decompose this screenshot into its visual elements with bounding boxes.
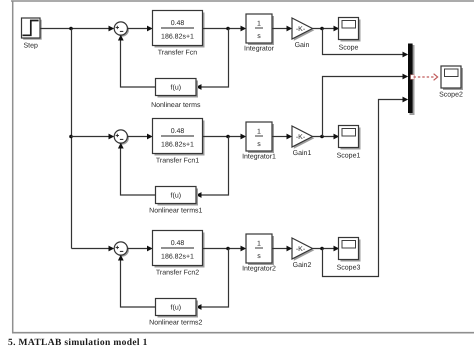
svg-text:Scope1: Scope1 — [337, 153, 361, 160]
svg-text:-K-: -K- — [296, 246, 306, 253]
junction dot node B — [226, 27, 230, 31]
arrowhead into Scope1 — [334, 134, 340, 140]
arrowhead into Scope3 — [334, 246, 340, 252]
svg-text:-K-: -K- — [296, 134, 306, 141]
integrator block Integrator2 — [242, 234, 276, 273]
arrowhead into Sum bottom — [118, 35, 124, 41]
svg-text:186.82s+1: 186.82s+1 — [161, 142, 194, 149]
arrowhead into f(u)2 right side — [196, 304, 202, 310]
wire Gain branch to Mux input 1 — [323, 29, 405, 55]
wire branch corner to Sum2 — [72, 248, 111, 250]
svg-text:s: s — [257, 253, 261, 260]
wire Integrator to Gain — [272, 28, 288, 30]
wire Gain1 branch up to Mux input 2 — [323, 77, 405, 137]
step source block Step — [22, 18, 42, 50]
arrowhead into f(u)1 right side — [196, 192, 202, 198]
svg-text:Transfer Fcn: Transfer Fcn — [158, 49, 198, 57]
junction dot node H — [320, 247, 324, 251]
feedback wire f(u)2 to Sum2 bottom — [121, 259, 156, 307]
integrator block Integrator1 — [242, 122, 276, 161]
junction dot node C — [320, 27, 324, 31]
gain block Gain2 — [292, 238, 314, 269]
svg-text:Scope3: Scope3 — [337, 265, 361, 272]
transfer function block Transfer Fcn2 — [153, 231, 205, 277]
junction dot node A — [69, 27, 73, 31]
wire branch vertical from node A down to row 3 — [71, 29, 73, 249]
svg-text:Gain: Gain — [295, 41, 310, 49]
wire Integrator1 to Gain1 — [272, 136, 288, 138]
feedback wire row2: node E down to f(u)1 — [200, 137, 229, 196]
svg-text:Integrator1: Integrator1 — [242, 154, 276, 161]
nonlinear function block Nonlinear terms1 — [149, 187, 202, 215]
arrowhead into Sum2 bottom — [118, 255, 124, 261]
mux block Mux — [408, 44, 415, 116]
sum block Sum1 — [114, 130, 129, 145]
wire Transfer Fcn1 to Integrator1 — [203, 136, 243, 138]
transfer function block Transfer Fcn1 — [153, 119, 205, 165]
red open arrowhead toward Scope2 — [434, 74, 438, 81]
svg-text:f(u): f(u) — [171, 304, 182, 312]
gain block Gain1 — [292, 126, 314, 157]
feedback wire row1: node B down to f(u) — [200, 29, 229, 88]
wire Sum1 to Transfer Fcn1 — [127, 136, 148, 138]
transfer function block Transfer Fcn — [153, 11, 205, 57]
scope block Scope1 — [337, 126, 361, 160]
arrowhead into Gain1 — [287, 134, 293, 140]
svg-text:f(u): f(u) — [171, 192, 182, 200]
arrowhead into Transfer Fcn2 — [147, 246, 153, 252]
wire Gain2 branch down right up to Mux input 3 — [323, 100, 405, 277]
arrowhead into Transfer Fcn1 — [147, 134, 153, 140]
svg-text:Nonlinear terms1: Nonlinear terms1 — [149, 207, 202, 215]
sum block Sum — [114, 22, 129, 37]
svg-text:Step: Step — [23, 43, 38, 50]
wire node D to Sum1 — [71, 136, 110, 138]
arrowhead into Scope — [334, 26, 340, 32]
svg-text:Scope: Scope — [339, 45, 359, 52]
svg-text:186.82s+1: 186.82s+1 — [161, 34, 194, 41]
nonlinear function block Nonlinear terms2 — [149, 299, 202, 327]
svg-text:1: 1 — [257, 241, 261, 248]
svg-text:0.48: 0.48 — [171, 128, 185, 135]
wire Transfer Fcn2 to Integrator2 — [203, 248, 243, 250]
svg-text:Gain2: Gain2 — [293, 261, 312, 269]
arrowhead into Mux input 1 — [403, 52, 409, 58]
arrowhead into f(u) right side — [196, 84, 202, 90]
svg-text:Nonlinear terms: Nonlinear terms — [151, 101, 201, 109]
svg-text:Integrator2: Integrator2 — [242, 266, 276, 273]
svg-text:s: s — [257, 141, 261, 148]
junction dot node D — [69, 135, 73, 139]
feedback wire row3: node G down to f(u)2 — [200, 249, 229, 308]
sum block Sum2 — [114, 242, 129, 257]
svg-text:1: 1 — [257, 21, 261, 28]
wire Gain to Scope — [313, 28, 336, 30]
figure frame top border — [11, 0, 474, 2]
svg-text:Transfer Fcn2: Transfer Fcn2 — [156, 269, 199, 277]
scope block Scope — [339, 18, 361, 52]
wire Integrator2 to Gain2 — [272, 248, 288, 250]
scope block Scope2 — [439, 66, 463, 99]
svg-text:Integrator: Integrator — [244, 46, 275, 53]
mux unconnected output port — [411, 75, 415, 79]
nonlinear function block Nonlinear terms — [151, 79, 201, 110]
arrowhead into Integrator2 — [241, 246, 247, 252]
svg-text:s: s — [257, 33, 261, 40]
arrowhead into Sum2 — [109, 246, 115, 252]
arrowhead into Integrator — [241, 26, 247, 32]
arrowhead into Integrator1 — [241, 134, 247, 140]
arrowhead into Sum1 — [109, 134, 115, 140]
red dashed unconnected signal wire — [414, 76, 435, 78]
arrowhead into Mux input 2 — [403, 74, 409, 80]
junction dot node G — [226, 247, 230, 251]
svg-text:Gain1: Gain1 — [293, 149, 312, 157]
arrowhead into Sum — [109, 26, 115, 32]
caption text (cut off at bottom) — [8, 338, 148, 348]
arrowhead into Gain2 — [287, 246, 293, 252]
wire Sum to Transfer Fcn — [127, 28, 148, 30]
arrowhead into Gain — [287, 26, 293, 32]
svg-text:186.82s+1: 186.82s+1 — [161, 254, 194, 261]
wire Gain2 to Scope3 — [313, 248, 336, 250]
feedback wire f(u)1 to Sum1 bottom — [121, 147, 156, 195]
scope block Scope3 — [337, 238, 361, 272]
arrowhead into Sum1 bottom — [118, 143, 124, 149]
figure frame bottom border — [12, 332, 474, 334]
svg-text:Nonlinear terms2: Nonlinear terms2 — [149, 319, 202, 327]
junction dot node E — [226, 135, 230, 139]
svg-text:Scope2: Scope2 — [439, 92, 463, 99]
arrowhead into Transfer Fcn — [147, 26, 153, 32]
svg-text:0.48: 0.48 — [171, 20, 185, 27]
integrator block Integrator — [244, 14, 275, 53]
gain block Gain — [292, 18, 314, 49]
svg-text:Transfer Fcn1: Transfer Fcn1 — [156, 157, 199, 165]
svg-text:1: 1 — [257, 129, 261, 136]
arrowhead into Mux input 3 — [403, 97, 409, 103]
wire Transfer Fcn to Integrator — [203, 28, 243, 30]
wire Gain1 to Scope1 — [313, 136, 336, 138]
svg-text:0.48: 0.48 — [171, 240, 185, 247]
svg-text:-K-: -K- — [296, 26, 306, 33]
wire Sum2 to Transfer Fcn2 — [127, 248, 148, 250]
junction dot node F — [320, 135, 324, 139]
figure frame left border — [12, 1, 14, 334]
wire Step to Sum — [40, 28, 110, 30]
svg-text:f(u): f(u) — [171, 84, 182, 92]
feedback wire f(u) to Sum bottom — [121, 39, 156, 87]
